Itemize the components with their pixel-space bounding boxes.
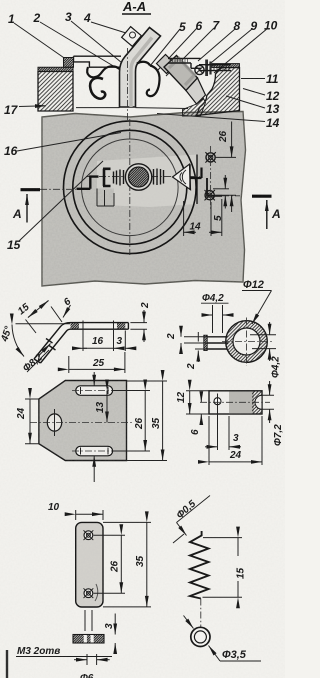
section trace right of hub heavy <box>188 168 202 179</box>
middle circle <box>73 130 187 244</box>
leader 10 <box>214 28 268 73</box>
bottom arrows <box>87 654 97 665</box>
tube center line <box>127 48 129 120</box>
left contact bracket heavy <box>103 169 111 186</box>
dim 12 <box>186 391 209 414</box>
bracket hatch ticks <box>170 58 188 63</box>
strip body <box>76 522 103 607</box>
clamp plates left of hub <box>114 170 124 186</box>
slot lower <box>76 446 113 456</box>
cylinder tip <box>186 78 206 104</box>
bolt washers <box>205 60 208 77</box>
bar center line <box>200 401 270 403</box>
slot upper <box>76 386 113 396</box>
section trace left heavy bar <box>21 188 41 191</box>
angled collar at cylinder top <box>157 55 176 74</box>
strip horizontal section top/bottom <box>71 323 129 330</box>
inner circle <box>82 139 179 236</box>
dim 14 plan <box>184 199 222 236</box>
strip tick marks <box>83 321 114 332</box>
inclined end cap <box>34 359 41 363</box>
ring inner circle <box>233 328 260 355</box>
left wall block hatched <box>38 72 73 112</box>
ring annulus hatched <box>226 321 268 363</box>
left wire clip <box>87 66 119 77</box>
dim 3 <box>124 331 126 352</box>
hub center line <box>86 176 200 178</box>
section trace jog right <box>207 178 222 196</box>
F0.5 arrow to wire <box>177 523 187 536</box>
bell horn <box>173 164 191 190</box>
end loop outer <box>191 627 210 646</box>
left hanging hook <box>90 78 105 99</box>
tube inner shading line <box>131 38 152 108</box>
dim 24 <box>209 416 262 465</box>
dim 2 upper left <box>184 337 207 343</box>
dim 26 <box>94 535 126 593</box>
dim 26 right <box>113 391 150 452</box>
hub outer ring <box>125 164 151 190</box>
dim F8.2 leader <box>38 344 51 357</box>
wedge under cylinder tip <box>183 99 206 117</box>
dim 24 <box>25 399 39 444</box>
tab <box>207 337 229 349</box>
leader 3 <box>71 21 133 72</box>
screw hole lower <box>205 190 215 200</box>
leader 8 <box>198 29 235 61</box>
dim 35 right <box>127 381 168 461</box>
end loop inner <box>194 631 206 643</box>
tab end plate <box>204 335 207 350</box>
strip left end hatch <box>71 323 80 330</box>
bolt cross circle <box>195 65 204 74</box>
leader 2 <box>40 22 120 70</box>
leader 5 <box>150 29 180 66</box>
hub hatched boss <box>129 167 149 187</box>
left wall thin top plate dense <box>38 67 73 71</box>
ext lines to section <box>85 610 92 631</box>
section trace right heavy bar <box>252 195 272 198</box>
leader 6 <box>157 28 197 71</box>
leaf ticks right of hub <box>154 169 164 186</box>
section arrow A left <box>26 194 28 223</box>
dim 3 section <box>114 614 116 635</box>
tube <box>120 28 161 108</box>
bar right hatched end <box>252 391 262 414</box>
dim 26 plan: extension + lines <box>215 122 236 213</box>
F12 leader <box>252 291 272 325</box>
45 deg arc <box>12 325 24 357</box>
hub dark crescent <box>128 170 131 184</box>
bracket above cylinder <box>168 58 201 68</box>
top/bottom center arrows <box>93 372 95 386</box>
leader 7 <box>166 28 214 76</box>
outer circle of plan view <box>64 121 197 254</box>
spring zigzag <box>190 531 209 599</box>
leader 4 <box>91 22 126 33</box>
dim 25 <box>69 352 125 373</box>
section trace right dash <box>222 195 240 197</box>
strip right end hatch <box>117 323 125 330</box>
screw holes center line column <box>210 146 212 210</box>
plate surface right of tube <box>136 107 189 110</box>
dim 13 <box>106 391 108 423</box>
bolt thread ticks <box>214 65 229 71</box>
strip hole lower <box>84 589 93 598</box>
plate surface left of tube <box>76 107 120 109</box>
dim 5 plan <box>213 175 229 221</box>
dim 10 <box>76 510 103 520</box>
leader 1 <box>14 23 64 58</box>
F4.2 right dim <box>250 335 276 349</box>
right wall block hatched with seat <box>197 68 240 116</box>
spring top/bottom ext lines <box>203 538 243 598</box>
strip hole upper <box>84 531 93 540</box>
section trace left dash-dot <box>40 188 76 190</box>
rotated clamp square <box>122 27 142 47</box>
section arrow A right <box>266 200 268 229</box>
right end bore semicircle <box>255 395 262 409</box>
plate (textured gray square, torn edges) <box>42 112 246 287</box>
chord edge of cutout <box>196 155 198 205</box>
section strip <box>73 635 104 644</box>
bar body <box>209 391 262 414</box>
section trace jog left <box>77 177 99 189</box>
small step bracket below-left of hub <box>97 189 114 207</box>
horizontal center line <box>30 422 132 424</box>
dim 2 lower left <box>195 348 207 350</box>
bend curve <box>34 323 71 363</box>
dim 3 <box>218 416 230 450</box>
right wire clip <box>137 62 150 66</box>
leader 15 <box>19 161 103 241</box>
wire tick <box>173 534 184 543</box>
curve artifact near lower hole <box>95 584 98 601</box>
F4.2 top dim <box>213 305 223 333</box>
right wire hook <box>147 66 160 97</box>
cylinder shading <box>169 59 195 86</box>
leader 13 <box>226 96 265 108</box>
ring center lines <box>222 341 273 343</box>
plate body <box>39 381 127 461</box>
leader 9 <box>206 29 252 67</box>
leader 12 <box>243 89 265 96</box>
dim 6 <box>200 392 202 403</box>
angled cylinder body <box>164 56 198 91</box>
vertical center line of plan view <box>129 119 131 255</box>
leader 17 arrow <box>19 105 46 108</box>
top plate bar <box>74 56 122 67</box>
clamp block on left wall <box>64 58 74 68</box>
dim 16 <box>83 331 114 352</box>
F3.5 leader <box>209 646 221 662</box>
scan edge artifact bottom left <box>6 650 8 678</box>
bar middle gray <box>229 392 254 414</box>
side hole <box>47 414 61 431</box>
dim 15 spring <box>237 538 239 556</box>
ring outer <box>226 321 268 363</box>
leader 14 <box>157 114 265 122</box>
dim 2 right <box>130 323 147 330</box>
right wall thin top plate <box>212 64 240 68</box>
section hole gaps <box>84 635 87 643</box>
dim F7.2 <box>262 395 274 409</box>
bolt rod <box>199 65 231 71</box>
arrow upper-left to loop <box>184 616 194 629</box>
leader 11 <box>241 78 265 80</box>
reference surface line <box>16 323 71 325</box>
spring center line <box>200 599 202 630</box>
screw hole upper <box>205 152 215 162</box>
leader 16 <box>17 133 121 152</box>
dim 15 inclined <box>26 307 63 334</box>
dim 6 arrow <box>63 305 71 318</box>
hole gap ticks on incline <box>46 339 56 351</box>
bar hole <box>214 398 221 405</box>
dim 35 <box>103 522 151 607</box>
white cutout around hub <box>97 155 197 208</box>
